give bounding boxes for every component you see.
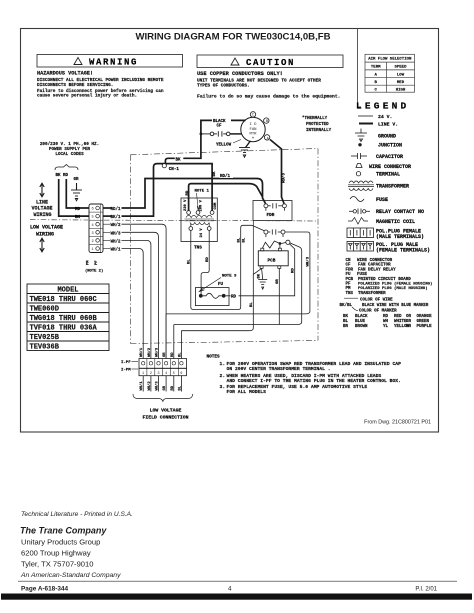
svg-text:AND CONNECT I-PF TO THE MATING: AND CONNECT I-PF TO THE MATING PLUG IN T… bbox=[227, 378, 401, 384]
svg-text:From Dwg. 21C800721 P01: From Dwg. 21C800721 P01 bbox=[364, 420, 431, 426]
legend: 24V line symbol bbox=[358, 114, 392, 120]
svg-text:*: * bbox=[251, 137, 254, 143]
svg-text:GREEN: GREEN bbox=[417, 320, 430, 324]
wire RD/3 motor A to FDR bbox=[270, 140, 284, 204]
legend: junction symbol bbox=[358, 143, 361, 146]
svg-text:WH/3: WH/3 bbox=[111, 231, 122, 236]
svg-text:TRANSFORMER: TRANSFORMER bbox=[358, 292, 386, 296]
legend: pol plug female symbol bbox=[347, 228, 374, 238]
svg-text:COLOR OF WIRE: COLOR OF WIRE bbox=[360, 298, 393, 302]
svg-text:FDR: FDR bbox=[346, 268, 354, 272]
wire terminal to plug col5 bbox=[174, 243, 302, 325]
svg-text:cause severe personal injury o: cause severe personal injury or death. bbox=[37, 94, 137, 99]
legend: transformer symbol bbox=[348, 181, 374, 190]
svg-text:2: 2 bbox=[150, 372, 152, 376]
rotated wire labels above plug bbox=[139, 347, 182, 357]
svg-text:The Trane Company: The Trane Company bbox=[20, 526, 107, 536]
PCB resistor zigzag bbox=[262, 241, 280, 249]
svg-text:200 V: 200 V bbox=[200, 199, 204, 211]
svg-text:RD/1: RD/1 bbox=[111, 207, 122, 212]
svg-text:WH/3: WH/3 bbox=[155, 347, 160, 357]
svg-text:BK: BK bbox=[257, 273, 261, 278]
svg-text:RD: RD bbox=[291, 268, 295, 273]
24V relay contact row bbox=[264, 229, 285, 237]
line voltage wiring label + arrow bbox=[40, 183, 44, 197]
ground power bbox=[71, 190, 82, 201]
power feed bracket bbox=[55, 165, 78, 171]
svg-text:BK RD: BK RD bbox=[56, 174, 69, 178]
footer rule bbox=[18, 580, 457, 582]
svg-text:WH: WH bbox=[383, 320, 389, 324]
svg-text:BK/1: BK/1 bbox=[111, 215, 122, 220]
svg-text:LOCAL CODES: LOCAL CODES bbox=[55, 152, 84, 157]
svg-text:TWE018 THRU 060C: TWE018 THRU 060C bbox=[30, 296, 97, 304]
svg-text:ORANGE: ORANGE bbox=[417, 315, 433, 319]
motor black wire bbox=[165, 120, 245, 163]
svg-text:PR: PR bbox=[406, 325, 412, 329]
legend: fuse symbol bbox=[350, 197, 364, 202]
warning box bbox=[37, 55, 183, 68]
svg-text:I-PF: I-PF bbox=[121, 361, 131, 365]
svg-text:ON 200V CENTER TRANSFORMER TER: ON 200V CENTER TRANSFORMER TERMINAL . bbox=[227, 366, 331, 372]
wire BK power drop bbox=[59, 179, 89, 216]
svg-text:FIELD CONNECTION: FIELD CONNECTION bbox=[142, 414, 188, 420]
svg-text:WH/1: WH/1 bbox=[139, 347, 144, 357]
svg-text:RD: RD bbox=[171, 385, 175, 390]
svg-text:24 V.: 24 V. bbox=[378, 114, 392, 120]
wire plug col6 drop bbox=[180, 331, 182, 359]
svg-text:(MALE TERMINALS): (MALE TERMINALS) bbox=[376, 234, 424, 240]
unit cabinet dash-dot boundary bbox=[131, 149, 319, 344]
svg-text:WH/3: WH/3 bbox=[155, 381, 160, 391]
svg-text:VOLTAGE: VOLTAGE bbox=[32, 206, 53, 212]
svg-text:GROUND: GROUND bbox=[378, 133, 396, 139]
svg-text:4: 4 bbox=[165, 372, 167, 376]
svg-text:Unitary Products Group: Unitary Products Group bbox=[21, 537, 100, 546]
svg-text:I-PM: I-PM bbox=[121, 369, 131, 373]
brace under wires bbox=[133, 394, 193, 402]
wire BL from PCB left pin to plug col6 bbox=[181, 268, 261, 330]
svg-text:WH/1: WH/1 bbox=[111, 248, 122, 253]
svg-text:C: C bbox=[252, 114, 254, 118]
svg-text:YL: YL bbox=[383, 325, 389, 329]
svg-text:LINE V.: LINE V. bbox=[378, 122, 398, 128]
svg-text:HIGH: HIGH bbox=[396, 88, 406, 92]
dash-dot separator line low/line voltage bbox=[30, 220, 318, 221]
transformer primary terminals bbox=[187, 211, 191, 215]
svg-text:RED: RED bbox=[394, 315, 402, 319]
svg-text:WH/1: WH/1 bbox=[139, 381, 144, 391]
wire TNS BL secondary routing under FU to contact row bbox=[191, 225, 264, 309]
svg-text:FUSE: FUSE bbox=[357, 273, 368, 277]
wire TNS RD secondary to fuse bbox=[201, 230, 209, 294]
FU fuse box bbox=[195, 288, 229, 306]
svg-text:GR: GR bbox=[406, 320, 412, 324]
wire BK/1 thick run bbox=[122, 164, 213, 217]
svg-text:WH/2: WH/2 bbox=[111, 239, 122, 244]
svg-text:GR: GR bbox=[276, 279, 280, 284]
svg-text:WIRE CONNECTOR: WIRE CONNECTOR bbox=[369, 164, 411, 170]
svg-text:PCB: PCB bbox=[346, 278, 354, 282]
legend abbreviations bbox=[346, 259, 433, 296]
svg-text:LOW: LOW bbox=[397, 73, 405, 77]
wire from right contact to WH/3 drop bbox=[166, 232, 310, 314]
notes text bbox=[220, 361, 402, 395]
svg-text:FAN DELAY RELAY: FAN DELAY RELAY bbox=[358, 268, 396, 272]
svg-text:FOR ALL MODELS: FOR ALL MODELS bbox=[227, 389, 267, 395]
block labels right bbox=[111, 207, 122, 253]
svg-text:I D: I D bbox=[249, 123, 257, 127]
svg-text:*THERMALLY: *THERMALLY bbox=[302, 116, 328, 121]
motor ground bbox=[246, 141, 251, 148]
svg-text:5: 5 bbox=[173, 372, 175, 376]
svg-text:BL: BL bbox=[178, 352, 182, 357]
svg-text:FUSE: FUSE bbox=[376, 197, 388, 203]
svg-text:TERMINAL: TERMINAL bbox=[376, 172, 400, 178]
svg-text:TEV036B: TEV036B bbox=[30, 344, 60, 352]
PCB bottom pins bbox=[260, 266, 263, 269]
legend: pol plug male symbol bbox=[347, 242, 374, 252]
fan motor ID FAN MTR bbox=[241, 117, 265, 141]
svg-text:BR: BR bbox=[343, 325, 349, 329]
svg-text:FU: FU bbox=[218, 283, 224, 287]
svg-text:RD: RD bbox=[231, 296, 237, 300]
svg-text:WH/3: WH/3 bbox=[306, 256, 311, 266]
svg-text:Tyler, TX 75707-9010: Tyler, TX 75707-9010 bbox=[21, 559, 93, 568]
svg-text:TWG018 THRU 060B: TWG018 THRU 060B bbox=[30, 315, 98, 323]
legend: magnetic coil symbol bbox=[348, 218, 368, 225]
svg-text:FDR: FDR bbox=[267, 213, 275, 218]
legend: terminal symbol bbox=[356, 172, 360, 176]
low voltage plug I-PF row bbox=[139, 359, 187, 369]
svg-text:6: 6 bbox=[180, 372, 182, 376]
PCB top pins bbox=[261, 248, 264, 251]
svg-text:WIRING: WIRING bbox=[34, 212, 52, 218]
low voltage plug I-PM row bbox=[139, 368, 187, 375]
svg-text:24 V: 24 V bbox=[200, 228, 204, 238]
svg-text:(NOTE 2): (NOTE 2) bbox=[85, 268, 103, 273]
svg-text:BK/BL: BK/BL bbox=[340, 303, 353, 308]
svg-text:BK: BK bbox=[343, 315, 349, 319]
svg-text:GR: GR bbox=[163, 385, 167, 390]
svg-text:WARNING: WARNING bbox=[89, 58, 138, 68]
wire GR to ground bbox=[76, 183, 78, 190]
svg-text:RD/1: RD/1 bbox=[220, 174, 231, 179]
svg-text:RD: RD bbox=[383, 315, 389, 319]
svg-text:WH/2: WH/2 bbox=[111, 223, 122, 228]
svg-text:OR: OR bbox=[406, 315, 412, 319]
motor terminal C bbox=[250, 112, 255, 117]
svg-text:JUNCTION: JUNCTION bbox=[378, 143, 402, 149]
svg-text:WIRING: WIRING bbox=[36, 231, 54, 237]
svg-text:BL: BL bbox=[188, 259, 192, 264]
TNS transformer box bbox=[181, 198, 217, 242]
svg-text:PM: PM bbox=[346, 287, 352, 291]
wire RD terminal to fuse bbox=[226, 244, 295, 296]
wire plug col4 drop bbox=[165, 314, 167, 359]
svg-text:COM: COM bbox=[214, 202, 218, 210]
svg-text:2: 2 bbox=[92, 240, 94, 244]
svg-text:GR: GR bbox=[74, 178, 80, 182]
svg-text:RD: RD bbox=[75, 208, 81, 212]
svg-text:CF: CF bbox=[346, 264, 352, 268]
svg-text:FAN: FAN bbox=[249, 128, 257, 132]
power supply text bbox=[40, 142, 99, 157]
caution text bbox=[197, 71, 340, 100]
wire plug col5 drop bbox=[173, 325, 175, 359]
svg-text:FAN CAPACITOR: FAN CAPACITOR bbox=[358, 264, 391, 268]
svg-text:CF: CF bbox=[217, 125, 223, 129]
svg-text:BLACK WIRE WITH BLUE MARKER: BLACK WIRE WITH BLUE MARKER bbox=[362, 304, 429, 308]
svg-text:LEGEND: LEGEND bbox=[356, 101, 409, 112]
svg-text:BL: BL bbox=[242, 237, 246, 242]
svg-text:P.I. 2/01: P.I. 2/01 bbox=[415, 586, 437, 592]
svg-text:BL: BL bbox=[178, 385, 182, 390]
PCB 24V terminal bbox=[286, 240, 290, 244]
bottom black bar bbox=[1, 594, 472, 600]
svg-text:FU: FU bbox=[346, 273, 352, 277]
svg-text:2.: 2. bbox=[220, 373, 226, 379]
svg-text:PF: PF bbox=[346, 283, 352, 287]
warning text bbox=[37, 71, 164, 99]
svg-text:230 V: 230 V bbox=[184, 199, 188, 211]
svg-text:POLARIZED PLUG (MALE HOUSING): POLARIZED PLUG (MALE HOUSING) bbox=[358, 286, 428, 291]
legend: wire connector symbol bbox=[356, 164, 362, 168]
wire WH/1 block row6 to plug col1 bbox=[122, 249, 144, 359]
svg-text:6: 6 bbox=[92, 208, 94, 212]
svg-text:5: 5 bbox=[92, 216, 94, 220]
wire GR from PCB right pin bbox=[278, 268, 280, 324]
junction capacitor/black bbox=[200, 133, 203, 136]
svg-text:LOW VOLTAGE: LOW VOLTAGE bbox=[30, 225, 63, 231]
wire WH/2 block row5 to plug col2 bbox=[122, 240, 151, 358]
svg-text:PM: PM bbox=[87, 260, 91, 265]
svg-text:RD: RD bbox=[206, 257, 210, 262]
svg-text:3: 3 bbox=[157, 372, 159, 376]
svg-text:DISCONNECTS BEFORE SERVICING.: DISCONNECTS BEFORE SERVICING. bbox=[37, 83, 113, 88]
svg-text:WH/2: WH/2 bbox=[147, 381, 152, 391]
svg-text:PCB: PCB bbox=[268, 258, 276, 263]
svg-text:WIRE CONNECTOR: WIRE CONNECTOR bbox=[357, 259, 393, 263]
svg-text:RELAY CONTACT NO: RELAY CONTACT NO bbox=[376, 209, 424, 215]
svg-text:MED: MED bbox=[397, 81, 405, 85]
svg-text:BL: BL bbox=[343, 320, 349, 324]
leader ticks WH labels bbox=[103, 224, 110, 248]
svg-text:BROWN: BROWN bbox=[355, 325, 368, 329]
wires below plug bbox=[143, 376, 181, 392]
svg-text:CAPACITOR: CAPACITOR bbox=[376, 154, 403, 160]
svg-text:LINE: LINE bbox=[36, 200, 48, 206]
svg-text:CN-1: CN-1 bbox=[169, 168, 180, 172]
svg-text:GR: GR bbox=[163, 352, 167, 357]
svg-text:RD: RD bbox=[171, 352, 175, 357]
svg-text:BL: BL bbox=[237, 237, 241, 242]
svg-text:BLACK: BLACK bbox=[213, 120, 226, 124]
transformer secondary terminals bbox=[189, 227, 193, 231]
terminal block bbox=[89, 204, 103, 253]
svg-text:6200 Troup Highway: 6200 Troup Highway bbox=[21, 548, 91, 557]
svg-text:USE COPPER CONDUCTORS ONLY!: USE COPPER CONDUCTORS ONLY! bbox=[197, 71, 283, 77]
PCB box bbox=[258, 251, 288, 266]
svg-text:1.: 1. bbox=[220, 361, 226, 367]
svg-text:NOTES: NOTES bbox=[207, 354, 221, 359]
svg-text:MAGNETIC COIL: MAGNETIC COIL bbox=[376, 219, 415, 225]
svg-text:BL: BL bbox=[250, 302, 254, 307]
svg-text:BLUE: BLUE bbox=[355, 320, 366, 324]
svg-text:BLACK: BLACK bbox=[355, 315, 368, 319]
wire RD/1 thick run bbox=[122, 179, 266, 209]
FDR contact bbox=[264, 203, 287, 211]
svg-text:(FEMALE TERMINALS): (FEMALE TERMINALS) bbox=[376, 248, 430, 254]
svg-text:TRANSFORMER: TRANSFORMER bbox=[376, 183, 409, 189]
svg-text:BK: BK bbox=[176, 158, 182, 162]
wire WH/3 block row4 to plug col3 bbox=[122, 232, 159, 358]
wire WH/2 block row3 to plug col4 bbox=[122, 224, 167, 358]
wire color table bbox=[343, 315, 432, 329]
junction dot PCB bbox=[279, 242, 282, 245]
svg-text:AIR FLOW SELECTION: AIR FLOW SELECTION bbox=[368, 58, 412, 62]
svg-text:INTERNALLY: INTERNALLY bbox=[306, 129, 332, 133]
svg-text:BK: BK bbox=[213, 171, 217, 177]
svg-text:NOTE 3: NOTE 3 bbox=[222, 275, 237, 279]
caution box bbox=[197, 55, 343, 68]
svg-text:LOW VOLTAGE: LOW VOLTAGE bbox=[150, 408, 182, 414]
wire RD power drop bbox=[66, 179, 89, 208]
svg-text:TVF018 THRU 036A: TVF018 THRU 036A bbox=[30, 325, 98, 333]
rotated wire labels below plug bbox=[139, 381, 182, 391]
svg-text:WH/2: WH/2 bbox=[147, 347, 152, 357]
wire transformer 230V lead to FDR bbox=[189, 184, 263, 211]
divider line right of caution bbox=[358, 29, 362, 108]
svg-text:1: 1 bbox=[142, 372, 144, 376]
svg-text:Technical Literature - Printed: Technical Literature - Printed in U.S.A. bbox=[21, 511, 133, 518]
motor terminal A bbox=[264, 135, 269, 140]
svg-text:TERM: TERM bbox=[371, 66, 381, 70]
svg-text:Failure to do so may cause dam: Failure to do so may cause damage to the… bbox=[197, 94, 340, 100]
svg-text:3: 3 bbox=[92, 232, 94, 236]
svg-text:PRINTED CIRCUIT BOARD: PRINTED CIRCUIT BOARD bbox=[358, 278, 411, 282]
svg-text:WIRING DIAGRAM FOR TWE030C14,0: WIRING DIAGRAM FOR TWE030C14,0B,FB bbox=[135, 32, 330, 43]
svg-text:SPEED: SPEED bbox=[394, 66, 407, 70]
svg-text:YELLOW: YELLOW bbox=[216, 143, 232, 147]
svg-text:4: 4 bbox=[228, 585, 232, 592]
legend: ground symbol bbox=[355, 129, 367, 142]
FDR frame left wire bbox=[252, 221, 254, 275]
svg-text:RD/3: RD/3 bbox=[282, 172, 287, 183]
svg-text:Page A-618-344: Page A-618-344 bbox=[21, 585, 68, 592]
svg-text:TNS: TNS bbox=[194, 245, 202, 250]
svg-text:MODEL: MODEL bbox=[57, 287, 78, 295]
svg-text:TEV025B: TEV025B bbox=[30, 334, 60, 342]
PCB ground wire bbox=[262, 268, 263, 279]
svg-text:PF: PF bbox=[95, 260, 99, 265]
CN-1 wire connector bbox=[162, 164, 166, 168]
svg-text:HAZARDOUS VOLTAGE!: HAZARDOUS VOLTAGE! bbox=[37, 71, 93, 77]
svg-text:NOTE 1: NOTE 1 bbox=[195, 190, 210, 194]
legend: line voltage symbol bbox=[359, 122, 398, 128]
motor terminal B bbox=[264, 118, 269, 123]
air flow selection table bbox=[365, 54, 415, 92]
svg-text:An American-Standard Company: An American-Standard Company bbox=[20, 572, 121, 579]
svg-text:BK: BK bbox=[75, 216, 81, 220]
svg-text:TNS: TNS bbox=[346, 292, 354, 296]
svg-text:1: 1 bbox=[92, 248, 94, 252]
svg-text:PROTECTED: PROTECTED bbox=[306, 123, 329, 127]
legend: capacitor symbol bbox=[351, 153, 367, 159]
svg-text:PURPLE: PURPLE bbox=[417, 325, 433, 329]
svg-text:CN: CN bbox=[346, 259, 352, 263]
svg-text:TYPES OF CONDUCTORS.: TYPES OF CONDUCTORS. bbox=[197, 84, 250, 89]
svg-text:TWE060D: TWE060D bbox=[30, 306, 59, 314]
transformer windings bbox=[185, 215, 215, 226]
svg-text:COLOR OF MARKER: COLOR OF MARKER bbox=[359, 309, 397, 313]
MODEL table bbox=[27, 284, 109, 351]
svg-text:CAUTION: CAUTION bbox=[246, 58, 295, 68]
thermally protected note bbox=[302, 116, 332, 133]
svg-text:3.: 3. bbox=[220, 384, 226, 390]
svg-text:4: 4 bbox=[92, 224, 94, 228]
color of wire key bbox=[340, 298, 429, 313]
FDR box bbox=[253, 201, 292, 221]
svg-text:POLARIZED PLUG (FEMALE HOUSING: POLARIZED PLUG (FEMALE HOUSING) bbox=[358, 282, 432, 287]
legend: relay contact NO symbol bbox=[349, 209, 370, 215]
